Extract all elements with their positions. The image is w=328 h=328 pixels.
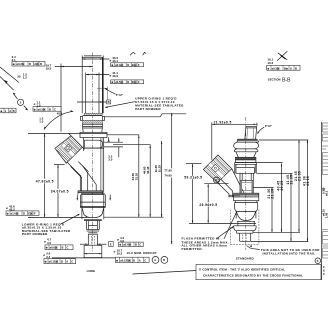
svg-text:ø: ø	[117, 238, 119, 242]
upper o-ring hatched band 2	[83, 120, 103, 123]
section X mark	[277, 51, 287, 61]
dia 43.3 text	[110, 56, 119, 63]
ext flange right	[253, 187, 273, 189]
svg-text:21.92±0.5: 21.92±0.5	[214, 121, 232, 125]
lower o-ring note	[22, 214, 80, 236]
boot face line	[204, 182, 228, 184]
svg-text:B: B	[135, 243, 137, 247]
flash note	[182, 212, 237, 251]
svg-text:21.20: 21.20	[270, 188, 274, 198]
dim 47.92 vertical	[36, 134, 54, 218]
svg-text:F-: F-	[323, 265, 326, 269]
svg-text:74.95: 74.95	[164, 173, 172, 177]
svg-text:ø0.6Ⓜ: ø0.6Ⓜ	[50, 246, 58, 250]
svg-text:4.5: 4.5	[47, 241, 51, 245]
svg-text:1.00: 1.00	[325, 212, 328, 218]
dim 19.7 offset	[46, 63, 93, 70]
svg-text:A: A	[154, 258, 156, 262]
dim R2 40.45	[276, 164, 284, 233]
control item box	[196, 264, 321, 279]
svg-text:ø: ø	[114, 249, 116, 253]
svg-text:77.95: 77.95	[164, 169, 172, 173]
dia 43.6 text and FCF	[6, 204, 39, 215]
keep-out note	[247, 246, 321, 256]
datum balloon above box	[315, 258, 321, 264]
FCF section BB	[267, 65, 300, 70]
svg-text:ø1.0Ⓜ: ø1.0Ⓜ	[11, 212, 19, 216]
housing width arrows	[77, 195, 111, 201]
svg-text:PERMITTED.: PERMITTED.	[182, 247, 204, 251]
30 deg note	[17, 72, 27, 79]
10.1 10.3 text	[267, 57, 273, 65]
svg-text:11.20: 11.20	[158, 165, 162, 173]
svg-text:33.30: 33.30	[135, 173, 139, 181]
svg-text:ø: ø	[43, 253, 45, 257]
endcap LONG	[84, 245, 102, 257]
svg-text:B: B	[295, 66, 297, 70]
upper o-ring note	[105, 97, 185, 111]
groove STANDARD	[236, 211, 256, 225]
flange STANDARD	[234, 193, 259, 201]
ext step right	[253, 231, 300, 233]
svg-text:C: C	[323, 272, 325, 276]
svg-text:ø0.2: ø0.2	[325, 190, 328, 196]
svg-text:B: B	[49, 107, 51, 111]
seat extension line	[189, 222, 256, 224]
flange ext right	[107, 134, 139, 136]
svg-text:D: D	[23, 212, 25, 216]
svg-text:34.07±0.5: 34.07±0.5	[51, 189, 69, 193]
tilted inlet tube STANDARD	[245, 127, 257, 140]
svg-text:EⓂ: EⓂ	[132, 63, 137, 67]
svg-text:3.0: 3.0	[108, 158, 112, 162]
svg-text:C: C	[54, 107, 56, 111]
svg-text:EⓂ: EⓂ	[132, 80, 137, 84]
dim 3.2 3.0 feature lines	[104, 137, 123, 162]
svg-text:B: B	[108, 100, 110, 104]
lower housing steps	[84, 219, 102, 234]
svg-text:5°±2°: 5°±2°	[116, 93, 124, 97]
svg-text:B-B: B-B	[282, 77, 291, 83]
SECTION B-B label	[268, 77, 291, 83]
body upper section	[84, 138, 104, 193]
shoulder STANDARD	[234, 226, 257, 233]
svg-text:D: D	[127, 63, 129, 67]
keep-out dashed box	[230, 210, 259, 245]
svg-text:19.5: 19.5	[46, 66, 52, 70]
balloon 2 with leader	[13, 93, 28, 111]
FCF position U1	[111, 63, 144, 67]
dia 4.7 text + FCF left	[44, 238, 73, 250]
svg-text:S: S	[317, 259, 319, 263]
5 deg feature lines	[97, 87, 108, 100]
svg-text:E: E	[110, 243, 112, 247]
svg-text:B: B	[62, 246, 64, 250]
svg-text:47.92±0.5: 47.92±0.5	[36, 179, 54, 183]
svg-text:41.10: 41.10	[306, 176, 310, 186]
FCF top-left	[12, 55, 45, 66]
svg-text:A: A	[66, 260, 68, 264]
upper o-ring bulge STANDARD	[234, 142, 259, 152]
svg-text:10.5: 10.5	[117, 252, 123, 256]
svg-text:B: B	[133, 258, 135, 262]
svg-text:ø0.1ⓅⓂ: ø0.1ⓅⓂ	[120, 258, 131, 262]
dim R1 21.30	[267, 188, 275, 233]
ext tip bottom right	[251, 241, 308, 243]
connector block STANDARD	[203, 155, 232, 183]
svg-text:B: B	[40, 62, 42, 66]
FCF mid small	[33, 107, 62, 115]
dia 4.2 text + FCF	[117, 236, 143, 247]
boot STANDARD	[217, 169, 244, 197]
svg-text:ø0.4Ⓜ: ø0.4Ⓜ	[123, 243, 131, 247]
dia 2.6 leader	[43, 252, 115, 259]
internal capsule window	[85, 140, 103, 148]
mounting flange	[80, 132, 107, 137]
datum balloon on boot face	[214, 177, 220, 183]
body mid STANDARD	[240, 173, 253, 193]
svg-text:PART NUMBER: PART NUMBER	[135, 107, 161, 111]
upper body groove lines	[83, 123, 103, 132]
dim tube OD upper	[82, 58, 109, 59]
dim V3 11.35 left view	[154, 141, 162, 217]
datum E box	[109, 242, 114, 247]
ext cap bottom to right	[259, 139, 309, 141]
svg-text:ø0.3Ⓜ: ø0.3Ⓜ	[38, 107, 46, 111]
endcap dim text	[114, 248, 157, 255]
svg-text:ø0.15Ⓜ: ø0.15Ⓜ	[49, 260, 59, 264]
svg-text:SECTION: SECTION	[268, 77, 281, 81]
svg-text:1.2: 1.2	[23, 76, 27, 80]
dim V1 33.50 left view	[131, 135, 139, 217]
1.2 1.4 text	[39, 116, 43, 123]
connector block LONG (45 deg hatched)	[55, 133, 85, 163]
dim 77.95 vertical	[164, 113, 172, 244]
svg-text:PART NUMBER: PART NUMBER	[22, 232, 48, 236]
dim V2 44.45 left view	[113, 145, 151, 218]
svg-text:A: A	[139, 258, 141, 262]
dim 34.07 vertical	[51, 164, 69, 217]
tip diameter dim	[80, 244, 106, 245]
flange extension line	[28, 132, 80, 134]
dia 1.1 text	[34, 100, 41, 107]
svg-text:ø0.3Ⓜ: ø0.3Ⓜ	[272, 66, 280, 70]
svg-text:A: A	[290, 66, 292, 70]
svg-text:A: A	[9, 109, 11, 113]
connector boot LONG	[67, 162, 96, 191]
ext band bottom right	[256, 162, 282, 164]
FCF left edge	[0, 108, 16, 113]
svg-text:C: C	[71, 260, 73, 264]
svg-text:C: C	[144, 258, 146, 262]
svg-text:C: C	[67, 246, 69, 250]
45 deg text and arc	[44, 110, 73, 129]
svg-text:30: 30	[17, 74, 21, 78]
svg-text:ø0.3Ⓜ: ø0.3Ⓜ	[17, 62, 25, 66]
svg-text:11.35: 11.35	[289, 175, 293, 185]
dim 59.31 vertical	[184, 164, 202, 224]
svg-text:B: B	[163, 258, 165, 262]
nozzle tip LONG	[88, 234, 97, 245]
svg-text:2.4: 2.4	[46, 255, 50, 259]
dim 26.96 vertical	[199, 184, 217, 223]
svg-text:26.96±0.5: 26.96±0.5	[199, 203, 217, 207]
ext housing top right	[256, 172, 292, 174]
svg-text:ø0.5Ⓜ: ø0.5Ⓜ	[115, 80, 123, 84]
svg-text:44.45: 44.45	[146, 166, 150, 174]
svg-text:CHARACTERISTICS DESIGNATED BY: CHARACTERISTICS DESIGNATED BY THE CROSS …	[203, 273, 303, 277]
svg-text:ø: ø	[44, 240, 46, 244]
overmold foot bar	[78, 191, 103, 195]
surface tick marks	[130, 52, 146, 55]
ext line band bottom	[186, 163, 202, 165]
centerline left view	[92, 53, 94, 253]
upper o-ring hatched band 1	[85, 113, 103, 115]
tip STANDARD	[240, 233, 251, 241]
lower o-ring groove bowl	[82, 208, 103, 217]
centerline right view	[245, 117, 247, 250]
svg-text:ø0.3Ⓜ: ø0.3Ⓜ	[115, 63, 123, 67]
FCF bottom left	[44, 259, 76, 264]
dim 21.92 top	[212, 121, 257, 160]
svg-text:40.9: 40.9	[112, 74, 118, 78]
dim R3 11.45	[286, 173, 294, 241]
taper to band	[236, 152, 256, 158]
svg-text:INSTALLATION INTO THE RAIL: INSTALLATION INTO THE RAIL	[263, 252, 316, 256]
injector body LONG inlet tube	[82, 56, 103, 114]
inlet cap STANDARD	[237, 139, 259, 142]
svg-text:40.25: 40.25	[280, 180, 284, 190]
svg-text:8.: 8.	[323, 269, 325, 273]
svg-text:ø: ø	[110, 58, 112, 62]
o-ring retainer tabs	[80, 116, 104, 121]
extension line lower groove	[28, 216, 89, 218]
leader to control box	[133, 271, 197, 275]
right edge strip	[322, 122, 328, 280]
dim R5 41.30	[302, 140, 310, 242]
leader diagonals top-left corner	[0, 67, 19, 90]
lower o-ring bulge STANDARD	[235, 201, 258, 212]
svg-text:ø: ø	[34, 102, 36, 106]
knurl band	[235, 157, 256, 162]
svg-text:ø: ø	[6, 206, 8, 210]
extension line node A	[60, 64, 62, 132]
coil housing section	[235, 163, 257, 174]
svg-text:EⓂ: EⓂ	[28, 212, 33, 216]
svg-text:10.3: 10.3	[267, 61, 273, 65]
svg-text:LONG: LONG	[87, 269, 96, 273]
dim to datum B box	[77, 100, 111, 104]
svg-text:B: B	[61, 260, 63, 264]
ext line upper oring tab	[105, 114, 187, 117]
5 deg note	[105, 88, 124, 97]
6 deg note	[257, 124, 273, 134]
svg-text:43.1: 43.1	[112, 59, 118, 63]
svg-text:AⓂ: AⓂ	[34, 62, 39, 66]
FCF bottom mid + datum circles	[115, 257, 167, 264]
svg-text:10.3 NOM. ENDCAP: 10.3 NOM. ENDCAP	[127, 251, 157, 255]
svg-text:21.35: 21.35	[297, 171, 301, 181]
svg-text:6°±2°: 6°±2°	[265, 124, 273, 128]
svg-text:B: B	[29, 62, 31, 66]
svg-text:59.31±0.5: 59.31±0.5	[184, 176, 202, 180]
svg-text:1.0: 1.0	[39, 119, 43, 123]
lower housing top	[80, 193, 105, 219]
svg-text:▽ CONTROL ITEM - THE ▽ ALSO ID: ▽ CONTROL ITEM - THE ▽ ALSO IDENTIFIES C…	[198, 268, 285, 272]
svg-text:D: D	[127, 80, 129, 84]
dia 41.1 text	[110, 71, 119, 78]
FCF position U2	[111, 80, 144, 84]
svg-text:B: B	[13, 109, 15, 113]
svg-text:STANDARD: STANDARD	[236, 257, 254, 261]
dim R4 21.45	[294, 140, 302, 232]
dim tube ID	[86, 74, 110, 75]
svg-text:ø: ø	[110, 73, 112, 77]
svg-text:C: C	[139, 243, 141, 247]
